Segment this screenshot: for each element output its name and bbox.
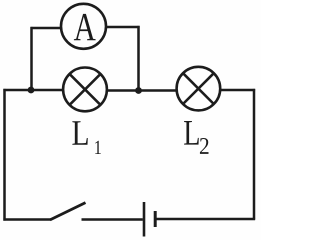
label L1 <box>72 121 87 145</box>
node junction dot 1 <box>28 87 35 94</box>
wire: right outer vertical <box>253 89 256 220</box>
ammeter label A <box>74 14 96 40</box>
lamp L1 circle <box>63 68 107 112</box>
wire: bottom left segment to switch pivot <box>3 218 51 221</box>
wire: left outer vertical <box>3 89 6 221</box>
ammeter A circle <box>61 4 106 49</box>
lamp L2 circle <box>177 67 221 111</box>
wire: top-right from ammeter to right branch corner <box>107 26 140 29</box>
wire: left branch vertical down to node 1 <box>30 27 33 90</box>
lamp L1 cross <box>70 74 101 105</box>
wire: lamp row right segment L2 to right corner <box>220 89 255 92</box>
wire: bottom right segment battery to right corner <box>156 218 255 221</box>
wire: lamp row left segment <box>3 89 63 92</box>
wire: top-left from ammeter to left branch corner <box>31 27 61 30</box>
node junction dot 2 <box>135 87 142 94</box>
battery B1 negative short plate <box>154 211 157 227</box>
switch S1 blade (open) <box>50 203 86 220</box>
label L2 <box>184 121 199 145</box>
lamp L2 cross <box>183 73 214 104</box>
wire: lamp row middle segment L1 to L2 <box>107 89 177 92</box>
battery B1 positive long plate <box>143 202 146 237</box>
wire: right branch vertical down to node 2 <box>137 26 140 91</box>
wire: switch fixed contact to battery <box>82 218 143 221</box>
